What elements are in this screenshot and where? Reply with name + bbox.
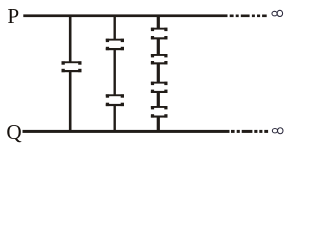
- wire: branch 1 lower segment: [69, 71, 72, 131]
- infinity symbol bottom: [272, 128, 283, 134]
- wire: branch 3 segment C3b to C3c: [157, 63, 160, 82]
- wire: branch 3 segment rail to C3a: [157, 15, 160, 29]
- capacitor C1 (branch 1): [62, 61, 82, 72]
- wire: branch 3 segment C3c to C3d: [157, 92, 160, 107]
- wire: branch 3 segment C3a to C3b: [157, 38, 160, 55]
- svg-text:Q: Q: [6, 120, 21, 144]
- wire: branch 2 upper segment: [114, 15, 116, 40]
- wire: bottom rail dashed continuation: [231, 130, 268, 133]
- wire: branch 2 middle segment: [114, 49, 116, 96]
- capacitor C2b (branch 2 lower): [106, 94, 124, 106]
- wire: branch 1 upper segment: [69, 15, 72, 63]
- capacitor C3a (branch 3, 1st): [151, 28, 168, 40]
- capacitor C2a (branch 2 upper): [106, 39, 124, 51]
- wire: branch 2 lower segment: [114, 105, 116, 131]
- capacitor C3d (branch 3, 4th): [151, 106, 168, 118]
- svg-text:P: P: [7, 4, 19, 28]
- wire: top rail dashed continuation: [230, 15, 267, 18]
- wire: top rail P: [23, 14, 227, 17]
- capacitor C3b (branch 3, 2nd): [151, 54, 168, 64]
- wire: bottom rail Q: [23, 130, 230, 133]
- capacitor C3c (branch 3, 3rd): [151, 82, 168, 93]
- wire: branch 3 segment C3d to bottom rail: [157, 117, 160, 131]
- infinity symbol top: [272, 10, 283, 16]
